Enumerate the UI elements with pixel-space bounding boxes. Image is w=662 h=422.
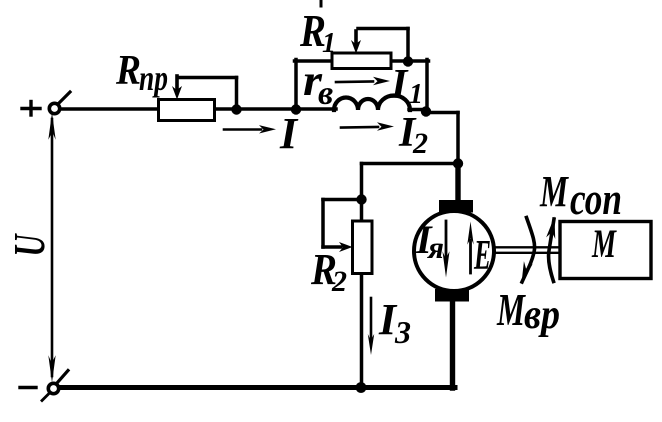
- svg-text:R: R: [115, 48, 141, 94]
- svg-text:E: E: [473, 233, 491, 279]
- svg-text:U: U: [5, 233, 54, 257]
- svg-text:M: M: [591, 221, 617, 266]
- svg-text:в: в: [318, 75, 333, 112]
- svg-text:2: 2: [331, 265, 347, 298]
- svg-text:3: 3: [394, 314, 411, 350]
- svg-text:М: М: [539, 167, 569, 216]
- svg-text:1: 1: [409, 79, 423, 110]
- svg-text:М: М: [496, 284, 526, 335]
- svg-text:I: I: [279, 109, 299, 158]
- svg-text:1: 1: [322, 28, 336, 59]
- svg-text:I: I: [390, 62, 409, 108]
- svg-text:соп: соп: [570, 173, 622, 224]
- svg-text:пр: пр: [139, 58, 168, 98]
- svg-text:я: я: [427, 230, 444, 265]
- svg-text:вр: вр: [524, 292, 560, 338]
- svg-text:2: 2: [412, 127, 428, 160]
